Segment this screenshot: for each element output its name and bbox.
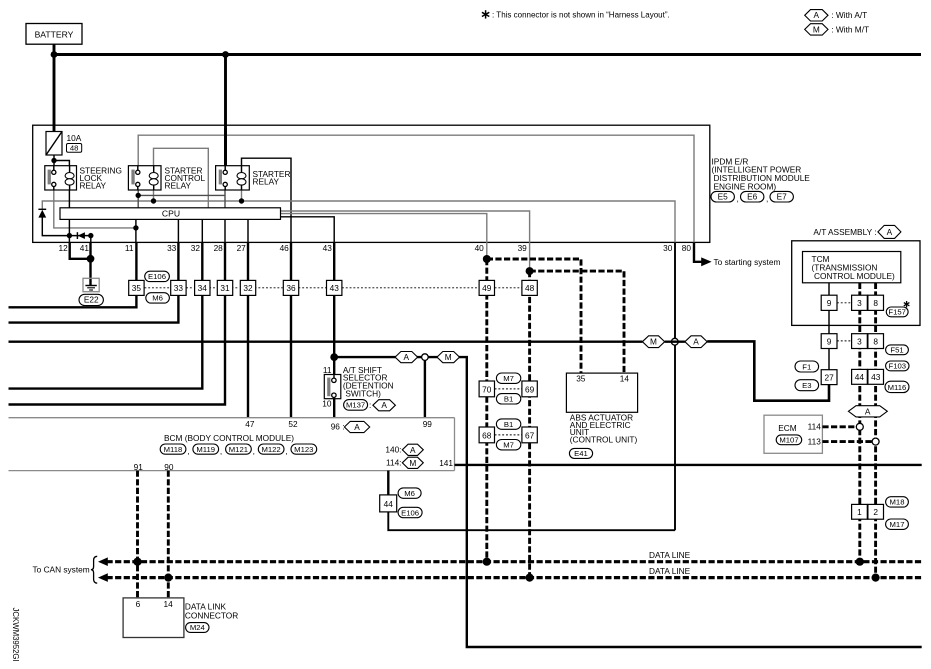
svg-text:113: 113	[808, 437, 822, 447]
svg-text:3: 3	[857, 336, 862, 346]
connector M107	[776, 435, 802, 445]
data line 1	[98, 557, 108, 566]
connector F51	[886, 345, 909, 355]
wire SR switch bottom to CPU	[224, 190, 226, 208]
open circle mid junction	[671, 338, 678, 345]
junction dot SCR switch net	[136, 193, 141, 198]
wire CPU to terminal 33	[177, 219, 179, 242]
svg-text:A: A	[693, 337, 699, 347]
BCM box	[9, 417, 455, 419]
svg-text:11: 11	[323, 365, 332, 375]
wire battery bus	[53, 44, 56, 131]
wire node to hexagon A (selector branch)	[334, 356, 421, 358]
svg-text:9: 9	[827, 336, 832, 346]
svg-text:27: 27	[824, 373, 834, 383]
svg-text:33: 33	[167, 243, 177, 253]
svg-text:M119: M119	[196, 445, 215, 454]
data line 2	[98, 573, 108, 582]
svg-text:80: 80	[682, 243, 692, 253]
svg-text:68: 68	[482, 430, 492, 440]
junction dot diode net right	[88, 233, 93, 238]
terminal box 2	[868, 504, 884, 519]
svg-text:A: A	[381, 400, 387, 410]
svg-text:140:: 140:	[385, 445, 401, 455]
wire SCR coil bottom stub	[153, 190, 155, 201]
svg-text:A: A	[887, 227, 893, 237]
svg-text:To CAN system: To CAN system	[33, 565, 90, 575]
connector M116	[885, 381, 909, 392]
svg-text:10: 10	[322, 399, 332, 409]
svg-text:46: 46	[280, 243, 290, 253]
junction dot net201 SR coil	[239, 198, 244, 203]
connector F103	[886, 361, 909, 371]
svg-text:1: 1	[857, 507, 862, 517]
wire 32 to connector 34	[201, 242, 203, 280]
svg-text:E7: E7	[777, 192, 788, 202]
wire diode D1 branch	[42, 217, 69, 235]
wire CAN 39 branch to ABS 14	[530, 271, 624, 373]
svg-text:8: 8	[873, 298, 878, 308]
svg-text:E41: E41	[574, 449, 588, 458]
wire 11 to connector 35	[135, 242, 137, 280]
junction dot 49/data1	[483, 558, 491, 566]
svg-text:44: 44	[384, 499, 394, 509]
junction dot 90/data2	[164, 574, 172, 582]
hexagon M mid line	[642, 336, 664, 348]
wire net to hexagons M/A long line	[9, 341, 643, 343]
wire terminal 41 inside	[90, 236, 92, 243]
wire fuse to SLR	[53, 155, 55, 170]
svg-text:141: 141	[439, 458, 453, 468]
svg-text:: This connector is not shown: : This connector is not shown in “Harnes…	[492, 10, 670, 19]
wire connector 33 to left edge	[9, 295, 179, 322]
junction dot fuse/SLR	[51, 158, 56, 163]
svg-text:34: 34	[198, 283, 208, 293]
wire BCM 90 CAN down	[167, 471, 170, 598]
svg-text:,: ,	[187, 446, 189, 456]
svg-text:28: 28	[214, 243, 224, 253]
svg-text:,: ,	[253, 446, 255, 456]
connector F157 with asterisk	[886, 307, 908, 317]
wire thick starter A/T path	[707, 341, 829, 400]
svg-text:39: 39	[518, 243, 528, 253]
wire mid A to circle	[665, 341, 685, 343]
connector box 34	[195, 280, 210, 295]
wire connector 44 to wire30	[388, 512, 675, 530]
svg-text:M24: M24	[190, 623, 206, 632]
connector F1	[795, 361, 819, 372]
wire 9 row1 to row2	[828, 310, 830, 333]
svg-text:RELAY: RELAY	[80, 180, 107, 190]
wire TCM CAN L	[858, 283, 861, 562]
connector box 67	[522, 427, 537, 443]
connector box 44 (M6/E106)	[380, 495, 397, 512]
svg-text:A: A	[404, 352, 410, 362]
svg-text:43: 43	[871, 372, 881, 382]
IPDM E/R box	[33, 125, 710, 242]
wire BCM 91 CAN down	[136, 471, 139, 598]
relay steering lock (box)	[45, 166, 77, 190]
svg-text:A: A	[814, 10, 820, 20]
wire SR coil top to terminal 46	[242, 158, 292, 242]
hexagon A selector	[395, 352, 418, 363]
svg-text:30: 30	[663, 243, 673, 253]
wire 40 gray stub	[486, 242, 488, 259]
svg-text:A/T ASSEMBLY :: A/T ASSEMBLY :	[813, 227, 876, 237]
svg-text:6: 6	[136, 599, 141, 609]
wire connector 34 to left edge	[9, 295, 203, 388]
svg-text:67: 67	[525, 430, 535, 440]
svg-text:E106: E106	[401, 508, 419, 517]
svg-text:9: 9	[827, 298, 832, 308]
svg-text:M121: M121	[229, 445, 248, 454]
svg-text:10A: 10A	[67, 133, 82, 143]
junction dot 39	[526, 267, 534, 275]
note: connector asterisk legend	[482, 10, 489, 18]
connector E7	[770, 191, 793, 202]
junction bus dot 1	[51, 51, 58, 58]
wire CAN 39 branch down to data line 2	[528, 271, 531, 577]
svg-text:8: 8	[873, 336, 878, 346]
svg-text:B1: B1	[504, 420, 513, 429]
dotted connector links row1	[144, 287, 170, 289]
open circle selector branch	[422, 354, 429, 361]
connector box 36	[283, 280, 298, 295]
svg-text:F1: F1	[802, 362, 811, 371]
open circle CAN L ECM	[856, 423, 863, 430]
diode D2 pointing left	[76, 232, 78, 239]
relay starter control (box)	[128, 166, 161, 190]
connector row E106/M6 ovals	[145, 271, 170, 281]
connector box 49	[479, 280, 494, 295]
svg-text::: :	[369, 400, 371, 410]
wire CPU to terminal 11	[135, 219, 137, 242]
svg-text:F51: F51	[890, 346, 903, 355]
wire connector 43 to shift selector node	[333, 295, 335, 374]
terminal box 44	[852, 369, 868, 384]
svg-text:35: 35	[132, 283, 142, 293]
svg-text:ECM: ECM	[778, 423, 797, 433]
svg-text:SWITCH): SWITCH)	[345, 389, 381, 399]
svg-text:RELAY: RELAY	[253, 177, 280, 187]
wire CAN 40 branch down to data line 1	[485, 259, 488, 562]
connector box 31	[217, 280, 232, 295]
svg-text:M7: M7	[503, 441, 514, 450]
wire TCM CAN H	[874, 283, 877, 578]
svg-text:12: 12	[58, 243, 68, 253]
svg-text:DATA LINE: DATA LINE	[649, 550, 691, 560]
wire 43 to connector 43	[333, 242, 335, 280]
svg-text:E6: E6	[747, 192, 758, 202]
wire TCM pin9 down	[828, 283, 830, 295]
wire 46 to connector 36	[290, 242, 292, 280]
wire connector 31 to left edge	[9, 295, 226, 404]
svg-text:69: 69	[525, 384, 535, 394]
wire net y195 SCR switch bottom to SR switch bottom	[137, 190, 139, 208]
svg-text:M107: M107	[779, 436, 798, 445]
svg-text:43: 43	[330, 283, 340, 293]
connector box 43	[327, 280, 342, 295]
open circle CAN H ECM	[872, 438, 879, 445]
wire terminal 41 to ground	[89, 242, 91, 285]
connector box 33	[171, 280, 186, 295]
connector B1 (top)	[496, 419, 520, 429]
connector box 35	[129, 280, 144, 295]
svg-text:114:: 114:	[386, 458, 402, 468]
wire CPU to terminal 28	[224, 219, 226, 242]
connector M18	[886, 497, 909, 507]
svg-text:M122: M122	[261, 445, 280, 454]
hexagon A wide	[848, 406, 887, 417]
terminal box 27	[821, 370, 837, 385]
junction dot TCM CAN L / data1	[856, 558, 864, 566]
svg-text:32: 32	[191, 243, 201, 253]
wire hexagon M branch down right	[428, 357, 922, 647]
wire 30 down	[674, 242, 676, 530]
svg-text:70: 70	[482, 384, 492, 394]
terminal box 43	[868, 369, 884, 384]
svg-text:To starting system: To starting system	[714, 257, 781, 267]
ground E22	[83, 278, 99, 291]
connector box 70	[479, 381, 494, 397]
svg-text:: With M/T: : With M/T	[831, 24, 869, 34]
svg-text:41: 41	[80, 243, 90, 253]
wire ECM 114 CAN stub	[822, 425, 857, 428]
A/T assembly box	[792, 241, 920, 326]
svg-text:M: M	[445, 352, 452, 362]
svg-text:JCKWM3952GI: JCKWM3952GI	[11, 608, 20, 662]
svg-text:M137: M137	[346, 401, 365, 410]
svg-text:96 :: 96 :	[331, 422, 345, 432]
wire CPU to terminal 43	[281, 217, 335, 243]
wire gray net y201 relay coils common to terminal 30	[42, 201, 675, 242]
terminal box 3 row2	[852, 334, 868, 349]
svg-text:44: 44	[855, 372, 865, 382]
wire diode D2 segment	[69, 235, 90, 237]
svg-text:: With A/T: : With A/T	[831, 10, 867, 20]
wire connector 35 to left edge	[9, 295, 137, 307]
wire 80 to starting system	[694, 242, 702, 261]
wire CPU to terminal 40	[281, 214, 487, 243]
svg-text:,: ,	[285, 446, 287, 456]
svg-text:2: 2	[873, 507, 878, 517]
connector box 68	[479, 427, 494, 443]
legend hexagon M : With M/T	[805, 24, 828, 35]
svg-text:,: ,	[220, 446, 222, 456]
svg-text:BCM (BODY CONTROL MODULE): BCM (BODY CONTROL MODULE)	[164, 433, 294, 443]
wire CPU to terminal 39	[281, 211, 530, 242]
svg-text:114: 114	[808, 422, 822, 432]
wire selector pin10 to BCM 96	[333, 399, 335, 418]
wire SLR switch bottom to wire 11	[54, 190, 136, 228]
junction dot TCM CAN H / data2	[872, 574, 880, 582]
arrow to starting system	[701, 257, 711, 266]
fuse 10A 48	[46, 132, 62, 156]
wire 27 to connector 32	[247, 242, 249, 280]
svg-text:M: M	[813, 24, 820, 34]
terminal box 9 row1	[821, 295, 837, 310]
junction dot 91/data1	[133, 558, 141, 566]
terminal box 8 row1	[868, 295, 884, 310]
svg-text:CPU: CPU	[162, 209, 180, 219]
svg-text:E5: E5	[718, 192, 729, 202]
wire SR coil bottom stub	[241, 190, 243, 201]
dotted link 9-3 row2	[837, 340, 852, 342]
svg-text:43: 43	[323, 243, 333, 253]
svg-text:99: 99	[423, 419, 433, 429]
battery B1	[26, 24, 82, 45]
svg-text:E106: E106	[148, 272, 166, 281]
junction dot wire11	[133, 225, 138, 230]
svg-text:BATTERY: BATTERY	[35, 29, 74, 39]
svg-text:47: 47	[245, 419, 255, 429]
junction dot net201 SCR coil	[151, 198, 156, 203]
junction dot 40	[483, 255, 491, 263]
svg-text:M6: M6	[404, 489, 415, 498]
connector E41	[569, 448, 592, 458]
svg-text:M: M	[409, 458, 416, 468]
svg-text:27: 27	[237, 243, 247, 253]
dotted link 68-67	[495, 434, 522, 436]
connector E5	[711, 191, 734, 202]
connector M137	[344, 400, 368, 411]
svg-text:A: A	[354, 422, 360, 432]
svg-text:A: A	[865, 406, 871, 416]
dotted link 70-69	[495, 388, 522, 390]
svg-text:(CONTROL UNIT): (CONTROL UNIT)	[570, 435, 638, 445]
hexagon A M137	[373, 400, 396, 411]
junction dot 48/data2	[526, 574, 534, 582]
ABS actuator box	[566, 373, 637, 412]
connector M7 (bottom)	[496, 440, 520, 450]
wire CPU to terminal 32	[201, 219, 203, 242]
svg-text:36: 36	[286, 283, 296, 293]
svg-text:14: 14	[163, 599, 173, 609]
connector B1 (bottom)	[496, 394, 520, 404]
svg-text:M118: M118	[164, 445, 183, 454]
svg-text:CONNECTOR: CONNECTOR	[185, 610, 238, 620]
svg-text:F157: F157	[888, 308, 906, 317]
wire 9 row2 to 27	[828, 348, 830, 370]
svg-text:M: M	[650, 337, 657, 347]
wire BCM 141 to right edge	[455, 464, 922, 466]
svg-text:M18: M18	[890, 498, 905, 507]
svg-text:40: 40	[475, 243, 485, 253]
svg-text:E22: E22	[84, 295, 99, 305]
wire SLR coil bottom to diode net	[68, 190, 70, 242]
wire connector 36 to BCM 52	[290, 295, 292, 417]
svg-text:48: 48	[70, 144, 79, 153]
svg-text:RELAY: RELAY	[165, 180, 192, 190]
data link connector box	[123, 598, 184, 638]
junction bus dot 2	[222, 51, 229, 58]
svg-text:35: 35	[576, 374, 586, 384]
legend hexagon A : With A/T	[805, 10, 828, 21]
svg-text:CONTROL MODULE): CONTROL MODULE)	[814, 271, 895, 281]
svg-text:31: 31	[220, 283, 230, 293]
terminal box 9 row2	[821, 334, 837, 349]
wire terminal 12 to ground	[70, 242, 91, 258]
connector box 32	[240, 280, 255, 295]
svg-text:52: 52	[288, 419, 298, 429]
dotted link 9-3 row1	[837, 302, 852, 304]
connector E6	[741, 191, 764, 202]
wire CPU to terminal 27	[247, 219, 249, 242]
junction dot node 43/selector	[330, 353, 338, 361]
svg-text:3: 3	[857, 298, 862, 308]
svg-text:11: 11	[125, 243, 134, 253]
svg-text:,: ,	[737, 194, 739, 204]
svg-text:ENGINE ROOM): ENGINE ROOM)	[714, 182, 777, 192]
svg-text:48: 48	[525, 283, 535, 293]
wire ECM 113 CAN stub	[822, 440, 872, 443]
wire bus drop repaint over gray	[224, 128, 227, 170]
svg-text:F103: F103	[889, 362, 907, 371]
junction dot diode net left	[67, 233, 72, 238]
wire 28 to connector 31	[224, 242, 226, 280]
wire gray net y135 SCR switch top to terminal 80	[138, 135, 694, 242]
svg-text:M7: M7	[503, 374, 514, 383]
svg-text:M123: M123	[294, 445, 313, 454]
wire CAN 40 branch to ABS 35	[487, 259, 581, 373]
wire bus drop to starter relay	[224, 55, 227, 171]
svg-text:14: 14	[620, 374, 630, 384]
svg-text:,: ,	[766, 194, 768, 204]
relay starter (box)	[216, 166, 250, 190]
svg-text:M17: M17	[890, 520, 905, 529]
connector box 69	[522, 381, 537, 397]
wire connector 32 to BCM 47	[247, 295, 249, 417]
wire 33 to connector 33	[177, 242, 179, 280]
junction dot ground	[87, 255, 95, 263]
TCM box	[803, 252, 901, 283]
ECM box	[764, 415, 822, 453]
connector E3	[795, 380, 819, 391]
svg-text:A: A	[410, 445, 416, 455]
svg-text:49: 49	[482, 283, 492, 293]
svg-text:E3: E3	[802, 381, 811, 390]
A/T shift selector detention switch	[324, 375, 341, 399]
svg-text:DATA LINE: DATA LINE	[649, 566, 691, 576]
terminal box 3 row1	[852, 295, 868, 310]
svg-text:M6: M6	[152, 294, 163, 303]
CPU U1	[60, 208, 281, 220]
wire BCM 114 to connector 44	[387, 471, 389, 495]
connector M7 (top)	[496, 373, 520, 383]
hexagon A mid line	[685, 336, 707, 348]
wire circle to BCM 99	[424, 357, 426, 418]
svg-text:33: 33	[174, 283, 184, 293]
terminal box 8 row2	[868, 334, 884, 349]
svg-text:B1: B1	[504, 395, 513, 404]
diode D1 pointing up	[38, 208, 46, 210]
terminal box 1	[852, 504, 868, 519]
connector M17	[886, 519, 909, 529]
wire gray net y148 SCR coil top to CPU	[154, 148, 209, 208]
connector box 48	[522, 280, 537, 295]
svg-text:32: 32	[243, 283, 253, 293]
hexagon M selector	[437, 352, 460, 363]
svg-text:M116: M116	[888, 383, 907, 392]
wire 39 gray stub	[529, 242, 531, 271]
BCM connector ovals M118 M119 M121 M122 M123	[160, 444, 186, 454]
